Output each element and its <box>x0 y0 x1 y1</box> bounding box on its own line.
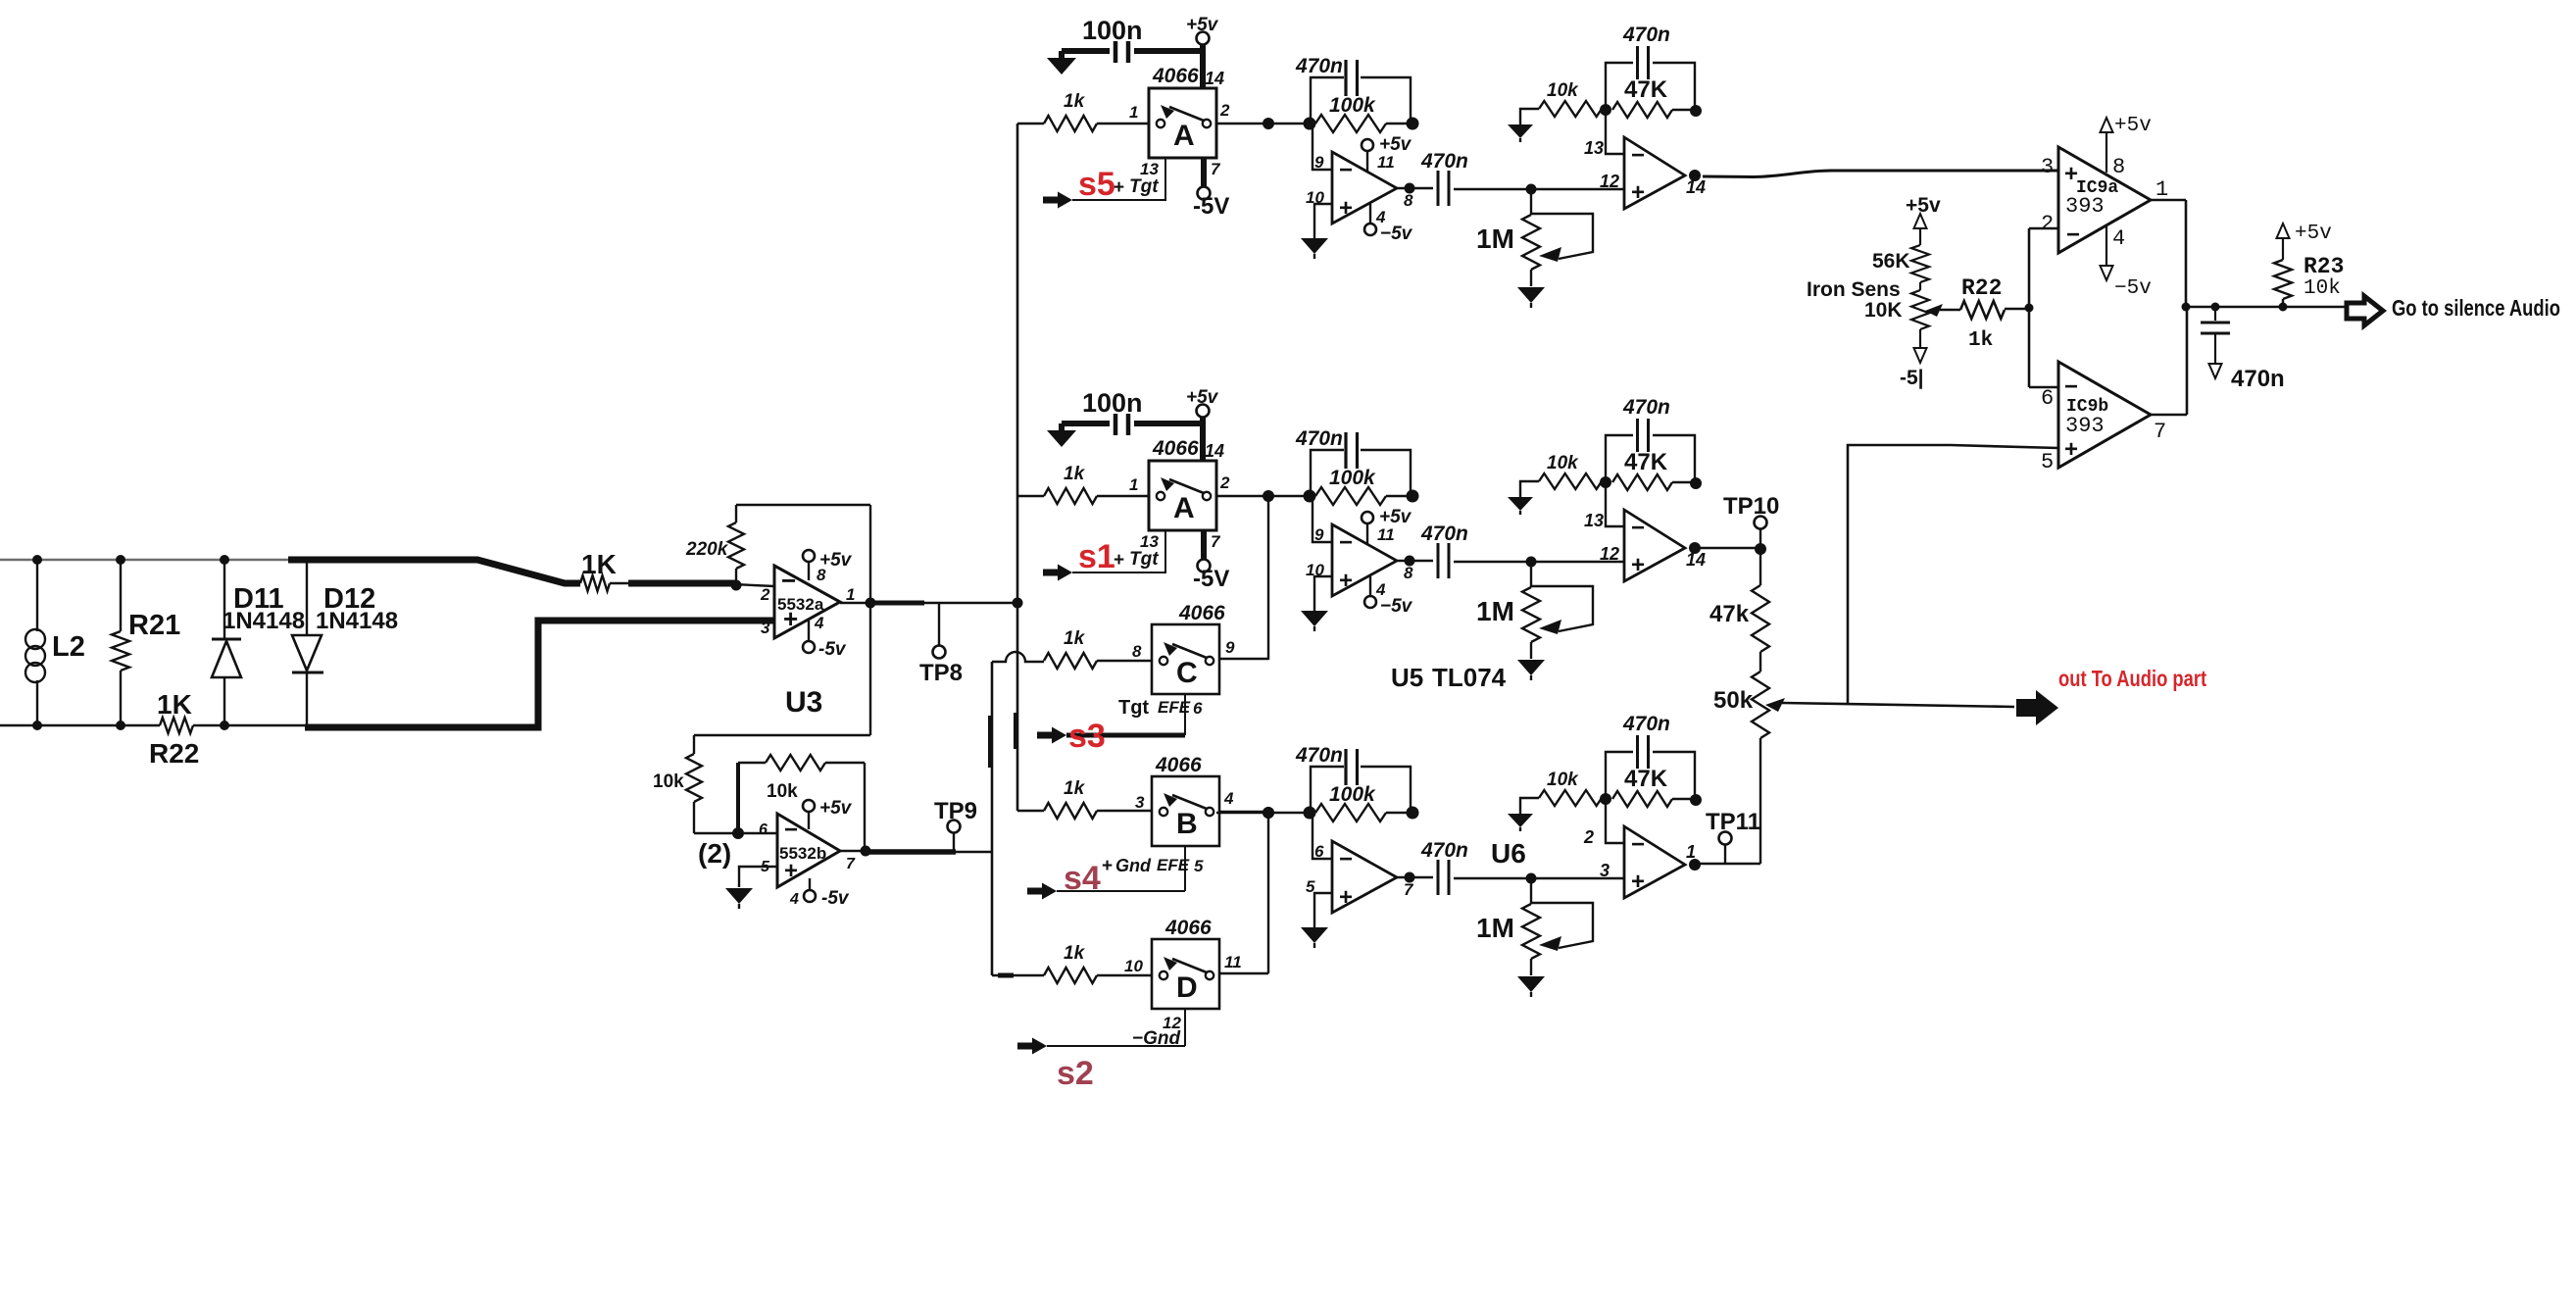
wire IC9 output node row <box>2186 306 2346 309</box>
svg-text:470n: 470n <box>1295 744 1343 767</box>
wire 4066 out to 100k node [top chain] <box>1216 123 1310 124</box>
svg-text:Go to silence Audio: Go to silence Audio <box>2392 296 2560 321</box>
label (2) <box>698 838 731 869</box>
potentiometer 1M [bottom chain] <box>1476 878 1593 975</box>
svg-text:100n: 100n <box>1082 388 1143 418</box>
svg-text:−: − <box>1339 529 1353 556</box>
svg-text:+5v: +5v <box>2114 115 2152 137</box>
svg-text:4: 4 <box>1223 789 1234 808</box>
node stage1 output [mid chain] <box>1405 556 1415 567</box>
resistor R21 <box>112 560 180 725</box>
analog switch 4066 A (s5) <box>1129 65 1230 178</box>
node 100k right [top chain] <box>1407 118 1419 130</box>
svg-text:7: 7 <box>2154 420 2166 444</box>
svg-text:EFE: EFE <box>1157 856 1190 874</box>
wire U3 output to bus <box>840 602 1017 604</box>
svg-text:-5V: -5V <box>1193 193 1229 220</box>
svg-text:TP9: TP9 <box>934 798 977 824</box>
svg-text:5: 5 <box>1194 857 1204 875</box>
node 100k left [bottom chain] <box>1304 807 1316 820</box>
svg-text:47K: 47K <box>1624 76 1668 103</box>
svg-text:L2: L2 <box>52 631 85 663</box>
wire TP11 out to 50k bottom <box>1695 863 1760 865</box>
wire 4066 out to 100k node [bottom chain] <box>1216 812 1310 814</box>
svg-text:Tgt: Tgt <box>1129 549 1159 570</box>
node TP10 <box>1755 543 1766 555</box>
svg-text:5532b: 5532b <box>779 844 826 863</box>
svg-text:2: 2 <box>1219 473 1230 492</box>
resistor 47K (stage2 feedback) [mid chain] <box>1612 449 1696 490</box>
inductor L2 <box>25 560 85 725</box>
analog switch 4066 C (s3) <box>1132 602 1235 694</box>
svg-text:+5v: +5v <box>819 550 853 571</box>
svg-text:Tgt: Tgt <box>1129 176 1159 197</box>
wire bottom rail left <box>0 724 160 727</box>
ground 1M [mid chain] <box>1517 660 1545 680</box>
potentiometer 1M [mid chain] <box>1476 562 1593 659</box>
op-amp stage1 (pins 9/10/8) [top chain] <box>1306 152 1413 224</box>
node 100k left [top chain] <box>1304 118 1316 130</box>
test point TP10 <box>1723 493 1779 548</box>
resistor 1k (s5 chain input) <box>1017 91 1149 131</box>
+5v supply (Iron Sens) <box>1906 194 1941 245</box>
resistor 10k (5532b feedback) <box>738 755 865 850</box>
svg-text:+: + <box>1631 552 1645 578</box>
svg-text:2: 2 <box>760 585 770 604</box>
svg-text:TP8: TP8 <box>919 660 963 686</box>
node top rail @D11 <box>220 555 229 565</box>
svg-text:1k: 1k <box>1968 329 1993 352</box>
svg-text:1N4148: 1N4148 <box>223 608 305 634</box>
wire TP9 bus vertical <box>991 662 993 975</box>
ground stage1 plus [bottom chain] <box>1301 927 1328 948</box>
svg-text:1K: 1K <box>157 689 192 720</box>
node 4066 output junction [bottom chain] <box>1263 807 1274 819</box>
node stage2 fb left [mid chain] <box>1600 476 1611 488</box>
wire 1M to stage2 plus [top chain] <box>1531 188 1624 190</box>
ground 100n (s1) <box>1047 423 1076 447</box>
potentiometer 50k <box>1713 672 1785 864</box>
svg-text:10k: 10k <box>1547 770 1579 790</box>
svg-text:s5: s5 <box>1078 166 1115 203</box>
node U3 output <box>866 598 876 609</box>
svg-text:1k: 1k <box>1064 628 1086 649</box>
svg-text:−: − <box>781 566 796 595</box>
svg-text:470n: 470n <box>1420 150 1468 173</box>
label 14 top chain <box>1686 177 1706 197</box>
svg-text:470n: 470n <box>1622 396 1670 419</box>
svg-text:470n: 470n <box>1622 713 1670 735</box>
resistor 56K <box>1872 245 1929 290</box>
wire 5532b plus input <box>739 867 777 887</box>
node 100k right [bottom chain] <box>1407 807 1419 820</box>
svg-text:470n: 470n <box>1420 523 1468 545</box>
capacitor 100n (s1 chain) <box>1062 388 1203 435</box>
resistor R22 1k (to IC9 minus) <box>1960 275 2029 352</box>
svg-text:4066: 4066 <box>1164 917 1212 939</box>
svg-text:R23: R23 <box>2304 254 2344 279</box>
op-amp stage2 (pins 13/12/14) [top chain] <box>1584 137 1685 209</box>
svg-text:470n: 470n <box>1295 427 1343 450</box>
label U5 TL074 <box>1391 663 1507 692</box>
wire switch B output <box>1219 811 1268 813</box>
svg-text:1k: 1k <box>1064 91 1086 112</box>
op-amp 5532b <box>759 814 856 908</box>
stage1 +5v pin 11 [mid chain] <box>1362 507 1412 545</box>
svg-text:393: 393 <box>2065 414 2105 438</box>
wire IC9 minus bus <box>2028 228 2031 387</box>
label +Gnd EFE (s4) <box>1102 856 1204 876</box>
svg-text:4066: 4066 <box>1155 754 1202 776</box>
wire IC9b pin6 <box>2029 386 2058 389</box>
wire stage1 minus input [top chain] <box>1313 124 1332 170</box>
svg-text:−: − <box>1631 515 1645 541</box>
wire top rail thick segment to 1K <box>288 560 580 583</box>
capacitor 470n (stage2 feedback) [top chain] <box>1606 24 1695 111</box>
arrow s1 input <box>1043 565 1072 581</box>
svg-text:1: 1 <box>846 585 855 604</box>
node 100k left [mid chain] <box>1304 490 1316 503</box>
node stage2 fb right [top chain] <box>1690 105 1702 117</box>
svg-text:+: + <box>1102 856 1113 876</box>
op-amp stage2 (pins 2/3/1) [bottom chain] <box>1583 826 1685 898</box>
node IC9 out @cap <box>2211 303 2220 312</box>
svg-text:−: − <box>2066 222 2080 248</box>
wire TP9 bus to 1k D <box>992 974 1044 976</box>
svg-text:1M: 1M <box>1476 596 1514 626</box>
capacitor 470n (series out) [bottom chain] <box>1397 839 1530 895</box>
capacitor 470n (stage2 feedback) [bottom chain] <box>1606 713 1695 800</box>
arrow s3 input <box>1037 727 1066 744</box>
ground stage1 plus [mid chain] <box>1301 611 1328 631</box>
resistor 1k (switch C input) <box>1044 628 1152 669</box>
svg-text:10K: 10K <box>1864 299 1903 322</box>
wire s1 control (pin13) <box>1072 530 1165 572</box>
label s1 <box>1078 538 1115 575</box>
svg-text:7: 7 <box>846 856 856 872</box>
svg-text:2: 2 <box>2041 212 2054 236</box>
svg-text:−: − <box>2064 373 2078 400</box>
svg-text:+5v: +5v <box>1379 134 1412 155</box>
svg-text:+: + <box>1339 884 1353 911</box>
resistor 47K (stage2 feedback) [top chain] <box>1612 76 1696 118</box>
svg-text:TP10: TP10 <box>1723 493 1779 520</box>
node R23 <box>2279 303 2288 312</box>
resistor 100k [mid chain] <box>1315 467 1412 505</box>
wire s4 control (pin5) <box>1057 846 1185 891</box>
test point TP11 <box>1706 809 1760 864</box>
svg-text:-5|: -5| <box>1900 367 1924 389</box>
resistor 220k (U3 feedback) <box>685 505 744 585</box>
svg-text:1: 1 <box>2155 177 2168 202</box>
wire wiper to R22 <box>1940 309 1960 312</box>
5532b -5v pin <box>804 878 850 909</box>
node 5532b minus junction <box>732 827 744 839</box>
wire s3 control (pin6) <box>1066 694 1185 735</box>
stage1 -5v pin 4 [mid chain] <box>1364 576 1413 617</box>
svg-text:100k: 100k <box>1329 94 1376 117</box>
label + Tgt (s1) <box>1114 549 1159 571</box>
svg-text:4: 4 <box>789 891 799 908</box>
test point TP9 <box>934 798 977 852</box>
svg-text:4: 4 <box>814 614 824 632</box>
svg-text:-5v: -5v <box>818 639 847 660</box>
capacitor 470n (stage2 feedback) [mid chain] <box>1606 396 1695 483</box>
svg-text:14: 14 <box>1686 550 1706 570</box>
svg-text:B: B <box>1176 808 1198 840</box>
svg-text:3: 3 <box>1600 861 1610 880</box>
capacitor 470n (series out) [top chain] <box>1397 150 1530 206</box>
node bottom rail @R21 <box>116 721 125 730</box>
node bottom rail @L2 <box>32 721 42 730</box>
op-amp IC9b 393 <box>2041 362 2166 474</box>
IC9a -5v pin4 <box>2101 226 2152 300</box>
svg-text:−5v: −5v <box>1380 224 1413 244</box>
node stage2 output [top chain] <box>1689 170 1701 181</box>
svg-text:1K: 1K <box>581 549 617 579</box>
resistor 1K (series to U3) <box>580 549 617 591</box>
svg-text:s1: s1 <box>1078 538 1115 575</box>
node 100k right [mid chain] <box>1407 490 1419 503</box>
capacitor 100n (s5 chain) <box>1062 16 1203 63</box>
label 1 bottom chain out <box>1686 842 1696 862</box>
node top rail @L2 <box>32 555 42 565</box>
svg-text:5: 5 <box>2041 450 2054 474</box>
svg-text:100k: 100k <box>1329 467 1376 489</box>
svg-text:EFE: EFE <box>1158 698 1191 717</box>
ground 100n (s5) <box>1047 51 1076 75</box>
svg-text:−: − <box>784 817 798 843</box>
svg-text:393: 393 <box>2065 194 2105 219</box>
svg-text:6: 6 <box>759 821 768 838</box>
svg-text:−5v: −5v <box>2114 277 2152 300</box>
resistor 47k (divider) <box>1709 549 1769 672</box>
ground 1M [top chain] <box>1517 287 1545 308</box>
svg-text:Tgt: Tgt <box>1118 697 1149 719</box>
wire stage1 plus input [top chain] <box>1314 204 1332 238</box>
wire IC9a output <box>2151 200 2186 307</box>
wire 1M to stage2 plus [bottom chain] <box>1531 877 1624 879</box>
svg-text:TL074: TL074 <box>1432 663 1507 692</box>
svg-text:+5v: +5v <box>819 798 853 819</box>
op-amp stage1 (pins 6/5/7) [bottom chain] <box>1306 841 1414 913</box>
stage1 +5v pin 11 [top chain] <box>1362 134 1412 173</box>
ground 1M [bottom chain] <box>1517 976 1545 997</box>
svg-text:R22: R22 <box>149 738 199 769</box>
wire 50k wiper to out arrow <box>1782 703 2014 707</box>
svg-text:1N4148: 1N4148 <box>316 608 398 634</box>
svg-text:7: 7 <box>1211 160 1221 178</box>
svg-text:R22: R22 <box>1961 275 2002 301</box>
label s5 <box>1078 166 1115 203</box>
svg-text:−: − <box>1631 142 1645 169</box>
svg-text:Iron Sens: Iron Sens <box>1807 278 1901 301</box>
node stage2 fb right [bottom chain] <box>1690 794 1702 806</box>
arrow s2 input <box>1017 1038 1047 1055</box>
svg-text:s4: s4 <box>1064 860 1101 897</box>
svg-text:10k: 10k <box>653 771 684 792</box>
capacitor 470n (output shunt) <box>2201 307 2285 392</box>
svg-text:-5V: -5V <box>1193 566 1229 592</box>
svg-text:out To Audio part: out To Audio part <box>2058 667 2206 691</box>
capacitor 470n (stage1 feedback) [bottom chain] <box>1295 744 1411 813</box>
svg-text:s3: s3 <box>1068 718 1106 755</box>
op-amp stage2 (pins 13/12/14) [mid chain] <box>1584 510 1685 581</box>
svg-text:U6: U6 <box>1491 838 1526 869</box>
svg-text:1k: 1k <box>1064 464 1086 484</box>
label Tgt EFE (s3) <box>1118 697 1203 719</box>
resistor 47K (stage2 feedback) [bottom chain] <box>1612 766 1696 807</box>
arrow s4 input <box>1027 883 1057 900</box>
svg-text:470n: 470n <box>1420 839 1468 862</box>
-5 supply (Iron Sens) <box>1900 329 1927 389</box>
resistor R23 10k pullup <box>2274 223 2344 307</box>
svg-text:1M: 1M <box>1476 224 1514 254</box>
potentiometer 10K Iron Sens <box>1864 290 1943 329</box>
svg-text:7: 7 <box>1404 880 1414 899</box>
svg-text:+: + <box>1339 568 1353 594</box>
wire 5532b output (TP9) <box>840 851 992 852</box>
svg-text:12: 12 <box>1600 544 1619 564</box>
svg-text:470n: 470n <box>1622 24 1670 46</box>
resistor 1k (switch D input) <box>1044 943 1152 983</box>
wire stage1 plus input [mid chain] <box>1314 576 1332 611</box>
op-amp stage1 (pins 9/10/8) [mid chain] <box>1306 524 1413 596</box>
svg-text:1: 1 <box>1129 475 1138 494</box>
wire 50k wiper riser to IC9b pin5 <box>1848 445 2058 705</box>
svg-text:56K: 56K <box>1872 250 1910 273</box>
svg-text:3: 3 <box>761 619 770 637</box>
svg-text:+: + <box>2064 436 2078 463</box>
svg-text:8: 8 <box>1132 642 1142 661</box>
svg-text:8: 8 <box>1404 564 1413 582</box>
svg-text:A: A <box>1173 120 1195 152</box>
diode D11 1N4148 <box>212 560 305 725</box>
svg-text:−Gnd: −Gnd <box>1132 1028 1180 1049</box>
svg-text:+5v: +5v <box>1906 194 1941 217</box>
svg-text:(2): (2) <box>698 838 731 869</box>
svg-text:3: 3 <box>1135 793 1145 812</box>
node 4066 output junction [mid chain] <box>1263 490 1274 502</box>
svg-text:R21: R21 <box>128 610 180 641</box>
svg-text:+5v: +5v <box>1186 387 1219 408</box>
svg-text:47K: 47K <box>1624 449 1668 475</box>
wire 1M to stage2 plus [mid chain] <box>1531 561 1624 563</box>
svg-text:4066: 4066 <box>1152 65 1199 87</box>
-5V supply (s5 4066 pin7) <box>1193 158 1229 220</box>
arrow s5 input <box>1043 192 1072 209</box>
resistor 10k (stage2) [top chain] <box>1520 80 1602 124</box>
wire TP8 bus vertical <box>1016 124 1018 811</box>
wire stage1 minus input [mid chain] <box>1313 496 1332 542</box>
node 1M junction [bottom chain] <box>1526 873 1537 884</box>
U3 +5v pin 8 <box>803 550 853 580</box>
svg-text:47k: 47k <box>1709 601 1750 627</box>
svg-text:+: + <box>1114 550 1124 571</box>
node stage2 fb right [mid chain] <box>1690 477 1702 489</box>
svg-text:11: 11 <box>1377 153 1395 172</box>
wire stage1 plus input [bottom chain] <box>1314 893 1332 927</box>
5532b +5v pin <box>803 798 853 829</box>
capacitor 470n (stage1 feedback) [top chain] <box>1295 55 1411 124</box>
test point TP8 <box>919 603 963 686</box>
node stage2 output [bottom chain] <box>1689 859 1701 871</box>
label Iron Sens <box>1807 278 1901 301</box>
resistor 10k (stage2) [bottom chain] <box>1520 770 1602 814</box>
node 1M junction [top chain] <box>1526 184 1537 195</box>
ground 5532b plus <box>725 888 753 909</box>
resistor 100k [bottom chain] <box>1315 783 1412 821</box>
ground 10k stage2 [top chain] <box>1508 124 1533 142</box>
wire stage1 minus input [bottom chain] <box>1313 813 1332 859</box>
svg-text:+5v: +5v <box>1186 15 1219 35</box>
svg-text:−: − <box>1339 157 1353 183</box>
svg-text:100k: 100k <box>1329 783 1376 806</box>
wire IC9a pin2 <box>2029 227 2058 230</box>
svg-text:U5: U5 <box>1391 663 1423 692</box>
svg-text:+: + <box>1631 869 1645 895</box>
svg-text:2: 2 <box>1583 827 1594 847</box>
svg-text:6: 6 <box>2041 386 2054 411</box>
node stage2 output [mid chain] <box>1689 542 1701 554</box>
svg-text:47K: 47K <box>1624 766 1668 792</box>
node IC9 out @a <box>2182 303 2191 312</box>
node TP8 bus junction <box>1013 598 1023 609</box>
svg-text:4066: 4066 <box>1178 602 1225 624</box>
svg-text:−: − <box>1631 831 1645 858</box>
svg-text:470n: 470n <box>2231 366 2285 392</box>
wire s5 control (pin13) <box>1072 158 1165 200</box>
node 5532b output <box>861 846 871 857</box>
wire switch D output <box>1219 813 1268 973</box>
wire 5532b minus input <box>738 832 777 834</box>
svg-text:3: 3 <box>2041 155 2054 179</box>
svg-text:50k: 50k <box>1713 687 1754 714</box>
diode D12 1N4148 <box>292 560 398 727</box>
label U6 <box>1491 838 1526 869</box>
label s2 <box>1057 1055 1094 1092</box>
svg-text:-5v: -5v <box>821 888 850 909</box>
ground stage1 plus [top chain] <box>1301 238 1328 259</box>
label out To Audio part <box>2058 667 2206 691</box>
svg-text:s2: s2 <box>1057 1055 1094 1092</box>
wire s1 junction to switch C out <box>1267 496 1269 660</box>
node stage1 output [top chain] <box>1405 183 1415 194</box>
node B/D output junction <box>1263 807 1274 819</box>
resistor R22 1K (bottom rail) <box>149 689 199 769</box>
node bottom rail @D11 <box>220 721 229 730</box>
svg-text:1k: 1k <box>1064 943 1086 964</box>
wire U3 fb box to 10k <box>694 734 870 736</box>
svg-text:14: 14 <box>1205 441 1224 461</box>
wire 4066 out to 100k node [mid chain] <box>1216 495 1310 497</box>
resistor 1k (switch B input) <box>1017 778 1152 819</box>
wire top rail left (L2/R21/D11/D12 top) <box>0 559 288 561</box>
svg-text:−5v: −5v <box>1380 596 1413 617</box>
svg-text:10k: 10k <box>1547 453 1579 473</box>
svg-text:1: 1 <box>1129 103 1138 122</box>
U3 -5v pin 4 <box>803 621 847 660</box>
node R22/minus bus <box>2025 304 2034 313</box>
label 12 -Gnd (s2) <box>1132 1014 1181 1049</box>
wire top chain out to IC9a pin3 <box>1703 171 2058 177</box>
svg-text:8: 8 <box>1404 191 1413 210</box>
svg-text:10k: 10k <box>2304 277 2341 300</box>
svg-text:+: + <box>1631 179 1645 206</box>
capacitor 470n (stage1 feedback) [mid chain] <box>1295 427 1411 496</box>
op-amp U3 5532a <box>760 566 855 638</box>
node 1M junction [mid chain] <box>1526 557 1537 568</box>
